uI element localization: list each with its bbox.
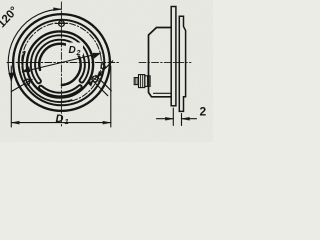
side view body outline: [149, 28, 172, 97]
rim circle: [19, 20, 105, 106]
horizontal centerline front view: [7, 62, 119, 64]
hole top: [59, 21, 65, 27]
D2 arrow left: [22, 67, 30, 73]
D1 arrow right: [103, 121, 111, 124]
d tangent line A: [96, 75, 112, 91]
dim 2 line right part: [182, 118, 197, 120]
outer circle (D1): [13, 14, 110, 111]
dim 2 extension line right: [181, 114, 183, 126]
arrow lower end of 120 arc: [9, 72, 15, 80]
grille slot lower (r28.2-31.8): [39, 85, 82, 96]
dim 2 line left part: [157, 118, 174, 120]
terminal washer: [145, 76, 150, 87]
white backing for D2 label: [66, 43, 83, 56]
hole top cross tick: [56, 23, 68, 25]
D1 extension line right: [110, 66, 112, 127]
D1 arrow left: [11, 121, 19, 124]
terminal stud thread: [134, 78, 138, 85]
dim 2 arrow right: [182, 117, 190, 120]
arrow top of 120 arc: [54, 8, 62, 11]
120deg dimension arc: [8, 9, 61, 81]
flange plate: [171, 7, 176, 106]
grille ring r21 (gap at bottom-left): [39, 44, 80, 85]
hole bottom-right: [92, 76, 98, 82]
terminal nut: [139, 75, 145, 88]
d tangent line B: [92, 80, 108, 96]
d arrow upper: [97, 71, 103, 76]
grille slot upper (r25.2-28.8): [31, 35, 89, 83]
hole bottom-left cross tick: [24, 77, 29, 86]
vertical centerline front view: [60, 2, 62, 126]
paper texture: [0, 0, 1, 1]
bolt circle (dash-dot): [22, 23, 102, 103]
hole bottom-left: [24, 79, 30, 85]
D1 extension line left: [10, 66, 12, 127]
D2 dimension line: [22, 53, 100, 72]
side view centerline: [139, 61, 191, 63]
D2 arrow right: [93, 53, 101, 59]
rear plate: [179, 16, 185, 111]
hole bottom-right cross tick: [90, 76, 100, 82]
d dimension line through bottom-right hole: [91, 61, 113, 83]
D1 dimension line: [11, 122, 111, 124]
side view internal line: [154, 92, 172, 94]
grille ring r36.4 (partial): [23, 52, 72, 102]
dim 2 arrow left: [165, 117, 173, 120]
120deg extension radial through bottom-left hole: [11, 80, 32, 92]
dim 2 extension line left: [172, 108, 174, 126]
grille ring r33: [27, 31, 93, 97]
d arrow lower: [87, 81, 93, 86]
